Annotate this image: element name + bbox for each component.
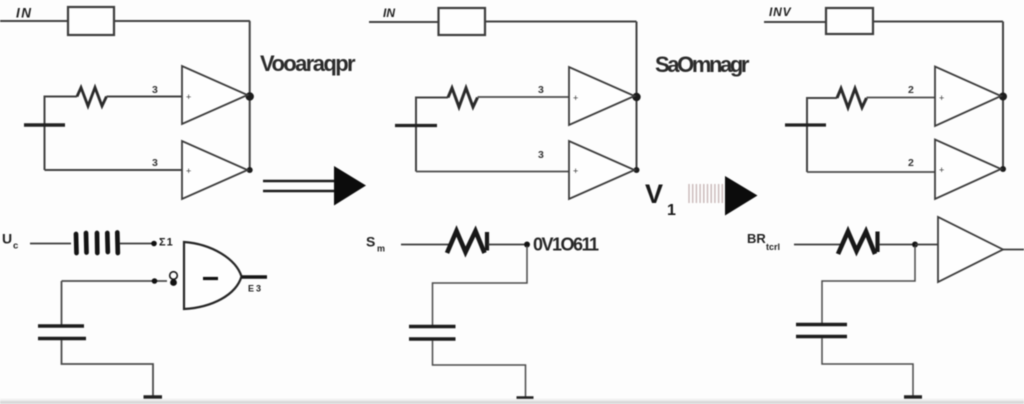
comparator U3 (D-shape) (184, 242, 242, 309)
wire input to R4 (369, 21, 439, 23)
wire lower to U5 (416, 171, 569, 173)
capacitor C1 plate2 (38, 337, 86, 340)
capacitor C3 plate2 (796, 335, 847, 338)
wire node down and jog left (433, 246, 528, 326)
wire Sa to R6 (401, 244, 449, 246)
svg-text:BR: BR (747, 231, 766, 246)
battery E1 plate (24, 123, 65, 126)
svg-text:+: + (573, 166, 578, 176)
node A (comparator 1 output) (246, 92, 254, 100)
bottom gray band (0, 401, 1024, 404)
bubble (inverting) (170, 272, 178, 280)
op-amp U7 (triangle) (935, 140, 1001, 200)
wire input to R1 (0, 20, 68, 22)
wire node down jog left (block3) (822, 246, 915, 324)
ground GND3 (904, 395, 922, 398)
svg-text:1: 1 (667, 202, 676, 219)
resistor R5 (zigzag) (448, 88, 478, 107)
resistor R7 (box) (826, 8, 873, 34)
wire node to buffer (915, 244, 938, 246)
svg-text:+: + (186, 92, 191, 102)
svg-text:IN: IN (16, 6, 33, 21)
ground GND1 (144, 395, 163, 399)
battery E3 plate (785, 123, 826, 126)
node G (1000, 166, 1006, 172)
wire battery corner (block3) (807, 98, 837, 172)
resistor R8 (zigzag) (837, 89, 867, 108)
battery E2 plate (395, 124, 437, 127)
node B (comparator 2 output) (247, 167, 253, 173)
node E (Vout1) (524, 242, 530, 248)
arrow 2 hatch (689, 184, 722, 203)
wire R3 to node (120, 243, 152, 245)
wire Uc to R3 (30, 243, 71, 245)
resistor R1 (box) (68, 7, 114, 35)
capacitor C3 plate1 (796, 323, 847, 326)
resistor R3 (bold bars) (76, 233, 118, 254)
wire cap to ground jog (62, 340, 154, 396)
svg-text:3: 3 (152, 157, 158, 169)
svg-text:E3: E3 (248, 284, 263, 294)
node C (632, 93, 640, 101)
resistor R2 (zigzag) (77, 88, 107, 107)
node S1 (151, 241, 157, 247)
op-amp U4 (triangle) (569, 67, 635, 125)
output bar (242, 275, 268, 278)
wire lower to U2 (45, 169, 183, 171)
arrow 1 head (334, 166, 366, 206)
svg-text:U: U (2, 231, 12, 247)
wire battery corner (block2) (416, 98, 448, 172)
wire R2 to U1 (107, 96, 183, 98)
wire cap to ground jog (block2) (433, 341, 526, 397)
svg-text:3: 3 (538, 84, 544, 96)
node on inverting input (152, 278, 158, 284)
svg-text:+: + (573, 93, 578, 103)
svg-text:2: 2 (908, 84, 914, 96)
svg-text:SaOmnagr: SaOmnagr (655, 52, 750, 77)
svg-text:INV: INV (769, 5, 792, 19)
svg-text:tcrl: tcrl (766, 242, 780, 252)
resistor R6 (bold zigzag) (447, 231, 485, 253)
op-amp U2 (triangle) (182, 141, 248, 199)
svg-text:3: 3 (152, 84, 158, 96)
svg-text:+: + (186, 166, 191, 176)
svg-text:Vooaraqpr: Vooaraqpr (260, 51, 356, 76)
capacitor C2 plate1 (409, 325, 456, 328)
node H (912, 242, 918, 248)
wire R6 to node (488, 244, 524, 246)
node D (634, 167, 640, 173)
wire R4 to corner (485, 21, 637, 23)
svg-text:Σ1: Σ1 (159, 237, 174, 249)
wire BR to R9 (794, 244, 840, 246)
wire R5 to U4 (478, 96, 570, 98)
wire lower to U7 (807, 171, 935, 173)
resistor R4 (box) (439, 8, 486, 35)
wire buffer output (1003, 249, 1024, 251)
wire vertical right bus (block3) (1002, 22, 1004, 170)
buffer U8 (triangle) (938, 217, 1003, 282)
svg-text:c: c (13, 241, 18, 252)
minus mark U3 (203, 277, 218, 280)
svg-text:3: 3 (538, 149, 544, 161)
svg-text:+: + (939, 93, 944, 103)
wire R8 to U6 (867, 97, 936, 99)
ground GND2 (517, 396, 534, 399)
svg-text:m: m (377, 244, 385, 254)
svg-text:2: 2 (908, 157, 914, 169)
arrow 1 (double line) (263, 180, 335, 182)
svg-text:V: V (645, 179, 663, 209)
wire R1 to corner (114, 20, 250, 22)
wire cap to ground jog (block3) (822, 338, 913, 396)
svg-text:+: + (939, 165, 944, 175)
resistor R9 (bold zigzag) (838, 232, 875, 255)
op-amp U5 (triangle) (569, 141, 635, 199)
wire R9 to node (879, 244, 912, 246)
wire inverting input (62, 280, 168, 282)
wire cap vertical upper (61, 281, 63, 325)
capacitor C2 plate2 (409, 337, 456, 340)
op-amp U1 (triangle) (182, 66, 248, 124)
wire vertical right bus (249, 21, 251, 170)
wire battery to zigzag (45, 97, 78, 171)
svg-text:0V1O611: 0V1O611 (533, 235, 599, 255)
node F (999, 93, 1007, 101)
wire vertical right bus (block2) (636, 22, 638, 171)
wire R7 to corner (873, 21, 1003, 23)
svg-text:IN: IN (383, 6, 395, 20)
svg-text:S: S (366, 234, 375, 250)
wire input to R7 (764, 21, 826, 23)
arrow 2 head (725, 176, 758, 216)
capacitor C1 plate1 (38, 324, 84, 327)
op-amp U6 (triangle) (935, 67, 1001, 127)
